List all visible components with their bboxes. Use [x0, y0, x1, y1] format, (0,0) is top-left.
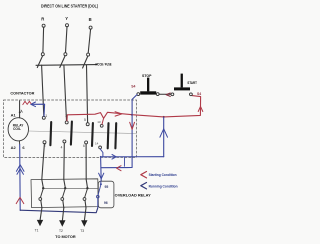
red wire into aux 13	[102, 118, 104, 124]
phase B terminal	[89, 17, 93, 29]
legend starting arrow	[141, 172, 147, 178]
svg-text:START: START	[187, 81, 197, 85]
overload aux rounded box	[98, 181, 114, 208]
MCCB pole 3 terminal	[87, 53, 90, 56]
aux contact bars	[107, 123, 110, 148]
wire B to MCCB	[88, 29, 90, 53]
MCCB bar	[36, 64, 97, 67]
wire B below MCCB	[87, 65, 88, 122]
contact pole 2 bar	[71, 122, 72, 145]
svg-text:TO MOTOR: TO MOTOR	[55, 235, 76, 239]
svg-text:OVERLOAD RELAY: OVERLOAD RELAY	[115, 194, 152, 198]
wire pole3 down	[85, 144, 87, 180]
red arrow down on stop drop	[130, 122, 135, 129]
motor tail T2	[62, 208, 63, 221]
red zigzag near A1	[23, 101, 31, 104]
svg-text:4: 4	[61, 145, 63, 149]
svg-text:Y: Y	[65, 16, 68, 21]
red arrow right on tap	[115, 112, 122, 116]
motor tail T1	[40, 208, 42, 220]
MCCB blade 3	[83, 56, 88, 68]
contact pole 1 bar	[49, 122, 52, 145]
MCCB blade 2	[60, 56, 65, 68]
arrow between buttons	[166, 93, 170, 96]
junction dots	[131, 114, 133, 116]
svg-text:A1: A1	[11, 112, 17, 117]
blue wire mid drop	[163, 117, 165, 157]
contactor dashed box	[4, 100, 137, 157]
contact pole 3 bar	[91, 123, 94, 146]
svg-text:95: 95	[105, 185, 109, 189]
svg-text:B: B	[89, 17, 92, 22]
motor tail T3	[84, 208, 86, 221]
blue horizontal to overload aux	[100, 156, 163, 158]
relay coil U1	[8, 118, 28, 141]
svg-text:CONTACTOR: CONTACTOR	[10, 90, 34, 95]
svg-text:R: R	[41, 17, 44, 22]
svg-text:T3: T3	[80, 229, 84, 233]
contact pole 1 terminal 2	[43, 141, 46, 144]
overload relay main box	[31, 179, 98, 208]
blue arrow up A2	[16, 165, 24, 172]
blue arrow up mid drop	[160, 129, 168, 137]
blue stub	[123, 157, 125, 166]
mechanical link line	[29, 131, 136, 134]
svg-text:MCCB / FUSE: MCCB / FUSE	[96, 63, 112, 67]
overload aux contact 95-96	[100, 181, 102, 184]
blue link aux14	[100, 149, 103, 157]
phase R terminal	[41, 17, 45, 28]
MCCB blade 1	[37, 56, 42, 68]
svg-text:A2: A2	[11, 145, 17, 150]
coil blue tap with arrow	[32, 104, 45, 116]
MCCB pole 2 terminal	[64, 53, 67, 56]
red arrow up A2	[16, 197, 24, 203]
svg-text:STOP: STOP	[142, 74, 152, 78]
legend running arrow	[141, 183, 147, 189]
overload pole 3	[86, 180, 87, 188]
svg-text:6: 6	[83, 144, 85, 148]
svg-text:Running Condition: Running Condition	[149, 184, 178, 188]
blue arrow down to 95	[99, 173, 104, 179]
svg-text:14: 14	[95, 142, 99, 146]
wire stop-start	[159, 93, 171, 95]
blue arrow on horizontal	[112, 155, 116, 160]
bottom return wire	[20, 208, 98, 213]
svg-text:Starting Condition: Starting Condition	[149, 173, 177, 177]
svg-text:S4: S4	[197, 92, 201, 96]
svg-text:S4: S4	[131, 84, 135, 88]
blue wire drop to 95	[100, 156, 103, 181]
overload internal bar	[43, 187, 98, 189]
svg-text:96: 96	[104, 201, 108, 205]
svg-text:13: 13	[97, 120, 101, 124]
svg-text:T1: T1	[35, 229, 39, 233]
wire pole1 down	[42, 144, 45, 180]
phase Y terminal	[65, 16, 68, 27]
blue wire stop drop	[102, 95, 138, 168]
svg-text:5: 5	[84, 118, 86, 122]
contact pole 3 terminal 6	[85, 141, 88, 144]
wire R to MCCB	[42, 27, 45, 52]
red arrow left mystery	[117, 166, 121, 171]
svg-text:T2: T2	[59, 229, 63, 233]
wire Y to MCCB	[66, 27, 68, 53]
wire R below MCCB	[42, 65, 44, 116]
A2 blue return vertical	[19, 145, 22, 211]
wire pole2 down	[63, 143, 66, 180]
red control tap wire	[67, 96, 201, 121]
svg-text:DIRECT ON LINE STARTER (DOL): DIRECT ON LINE STARTER (DOL)	[41, 3, 98, 8]
contact pole 2 terminal 4	[63, 140, 66, 143]
overload pole 1	[42, 180, 43, 188]
MCCB pole 1 terminal	[41, 53, 44, 56]
svg-text:COIL: COIL	[13, 127, 21, 131]
wire Y below MCCB	[64, 65, 67, 120]
red arrow up right edge	[198, 107, 203, 112]
overload pole 2	[64, 180, 65, 188]
